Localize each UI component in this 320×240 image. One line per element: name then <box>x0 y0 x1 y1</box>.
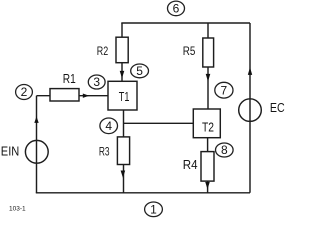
node 8 <box>216 143 234 157</box>
node 1 <box>145 202 163 217</box>
svg-text:6: 6 <box>173 2 180 16</box>
svg-text:2: 2 <box>21 85 28 99</box>
resistor R3 <box>117 137 129 165</box>
node 4 <box>100 118 118 134</box>
arrow right after R1 <box>83 94 89 98</box>
transistor stage T1 <box>108 81 137 110</box>
wire T2 emitter to bottom bus through R4 <box>207 138 209 193</box>
node 5 <box>131 64 149 78</box>
resistor R5 <box>203 38 214 67</box>
svg-text:EIN: EIN <box>1 144 20 159</box>
svg-text:T2: T2 <box>202 120 214 135</box>
svg-text:103-1: 103-1 <box>9 206 26 213</box>
node 2 <box>16 85 33 100</box>
svg-text:R3: R3 <box>99 144 110 158</box>
svg-text:4: 4 <box>105 119 112 133</box>
svg-text:R1: R1 <box>63 72 76 86</box>
wire T1 emitter node4 to T2 base <box>124 122 194 124</box>
svg-text:R4: R4 <box>183 157 198 172</box>
svg-text:5: 5 <box>136 64 143 78</box>
svg-text:7: 7 <box>221 83 228 97</box>
node 3 <box>88 75 105 89</box>
arrow down after R4 <box>205 182 210 189</box>
source EC <box>239 99 262 122</box>
source EIN <box>25 140 48 163</box>
node 6 <box>168 1 185 16</box>
svg-text:R2: R2 <box>97 44 109 58</box>
wire left branch EIN <box>36 96 38 193</box>
transistor stage T2 <box>193 109 220 138</box>
wire node2 to T1 through R1 <box>37 95 109 97</box>
arrow up left branch <box>34 116 38 123</box>
wire top bus to T1 through R2 <box>121 23 123 81</box>
wire top bus to T2 through R5 <box>207 23 209 109</box>
arrow down after R3 <box>121 171 126 178</box>
svg-text:8: 8 <box>221 143 228 157</box>
arrow down after R2 <box>120 71 125 78</box>
arrow down after R5 <box>206 74 211 82</box>
node 7 <box>215 82 233 98</box>
wire T1 emitter to bottom bus through R3 <box>123 110 125 193</box>
wire right bus EC branch <box>249 23 251 193</box>
resistor R2 <box>116 37 128 63</box>
wire bottom bus node1 <box>36 192 250 194</box>
svg-text:3: 3 <box>93 75 100 89</box>
arrow up right branch <box>248 67 252 75</box>
svg-text:1: 1 <box>150 203 157 217</box>
resistor R1 <box>50 89 79 101</box>
svg-text:R5: R5 <box>183 44 196 58</box>
resistor R4 <box>201 152 214 182</box>
wire top bus node6 <box>121 22 250 24</box>
svg-text:EC: EC <box>270 101 285 115</box>
svg-text:T1: T1 <box>119 90 130 104</box>
